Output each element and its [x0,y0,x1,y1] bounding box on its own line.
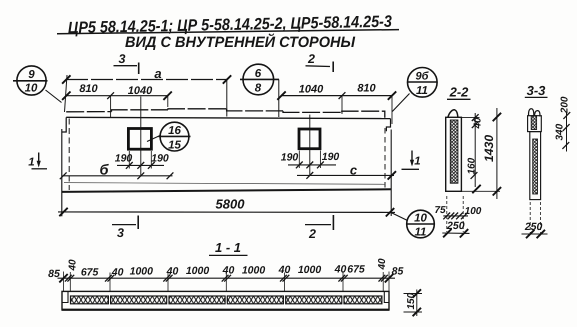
svg-text:2-2: 2-2 [449,85,470,100]
section 2-2 core hatch [450,120,458,183]
svg-text:250: 250 [524,221,543,233]
dim line a (top) [66,79,227,81]
svg-text:1000: 1000 [130,266,154,278]
svg-text:9: 9 [28,69,35,81]
section 1-1 hatch strip 6 [344,296,382,304]
svg-text:3: 3 [119,52,126,66]
svg-text:40: 40 [473,117,484,130]
svg-text:11: 11 [416,85,428,97]
section 1-1 right end step [384,291,389,302]
svg-text:100: 100 [465,206,482,217]
section 1-1 hatch strip 2 [111,296,167,304]
svg-text:160: 160 [467,157,478,174]
axis 3 vertical [140,97,142,177]
section 3-3 lower column [530,132,541,200]
section 1-1 extension verticals [64,272,390,292]
marker circle 10/11 [391,210,435,238]
section 3-3 right dim [566,112,568,152]
svg-text:б: б [100,163,110,179]
svg-text:675: 675 [81,267,99,279]
svg-text:810: 810 [79,83,98,95]
section 1-1 dim line [58,277,396,279]
svg-text:1: 1 [414,156,420,168]
svg-text:200: 200 [559,96,570,114]
marker circle 9/10 [13,66,62,103]
svg-text:340: 340 [554,123,565,140]
panel right inner dashed [384,128,386,188]
dim 1040 / 810 right [281,95,393,97]
marker circle 6/8 [240,64,279,117]
dim c line [297,174,394,176]
svg-text:40: 40 [278,264,291,276]
svg-text:75: 75 [434,205,446,216]
svg-text:11: 11 [415,227,427,239]
panel ledge top edge [66,109,385,118]
marker circle 16/15 [147,122,191,151]
section 3-3 bottom dim 250 [529,202,531,235]
panel top edge [66,117,390,118]
svg-text:6: 6 [255,68,262,80]
svg-text:810: 810 [357,83,376,95]
svg-text:190: 190 [115,152,133,164]
section 2-2 lifting hook [448,110,458,117]
svg-text:190: 190 [322,151,340,163]
svg-text:10: 10 [414,213,427,225]
svg-text:1: 1 [28,157,34,169]
svg-text:40: 40 [68,259,79,272]
opening square right [299,129,320,149]
section 1-1 hatch strip 4 [227,296,283,304]
panel left inner dashed [68,119,70,191]
svg-text:40: 40 [334,264,347,276]
panel bottom inner line [64,183,385,185]
dim 190/190 left [117,164,164,166]
svg-text:190: 190 [151,152,169,164]
marker circle 9b/11 [392,68,437,112]
svg-text:ВИД С ВНУТРЕННЕЙ СТОРОНЫ: ВИД С ВНУТРЕННЕЙ СТОРОНЫ [125,33,356,51]
section 3-3 upper block [528,116,542,132]
panel right edge [386,119,390,132]
svg-text:a: a [154,66,161,81]
svg-text:250: 250 [446,220,465,232]
svg-text:1 - 1: 1 - 1 [215,240,241,255]
dim b line [63,175,173,177]
svg-text:5800: 5800 [216,197,246,212]
svg-text:8: 8 [255,83,262,95]
svg-text:3: 3 [117,226,124,240]
svg-text:1040: 1040 [299,84,324,96]
section 1-1 right dim 150 [416,290,418,317]
svg-text:2: 2 [307,52,315,66]
svg-text:c: c [350,163,358,178]
svg-text:150: 150 [406,292,417,309]
section 1-1 hatch strip 3 [169,296,225,304]
section 1-1 hatch strip 5 [286,296,342,304]
dim 810 / 1040 left [66,95,168,97]
svg-text:1000: 1000 [242,265,266,277]
svg-text:10: 10 [25,83,38,95]
section 3-3 lower hatch [533,139,538,194]
svg-text:190: 190 [281,152,299,164]
svg-text:2: 2 [308,227,316,241]
section 1-1 bottom thick edge [62,309,389,311]
svg-text:85: 85 [392,266,404,278]
section 1-1 hatch strip 1 [71,296,109,304]
svg-text:675: 675 [347,264,365,276]
svg-text:1040: 1040 [128,85,153,97]
section 3-3 hooks [529,109,534,116]
extension line left top [65,75,68,112]
dim 5800 [58,211,395,214]
dim 190/190 right [288,164,336,166]
extension line a right [226,80,228,117]
svg-text:1000: 1000 [298,264,322,276]
svg-text:1000: 1000 [186,265,210,277]
svg-text:15: 15 [168,140,181,152]
opening square left [128,129,151,150]
svg-text:3-3: 3-3 [527,83,547,98]
section 1-1 outline [62,291,389,310]
axis 2 vertical [309,115,311,176]
title underline [57,30,399,34]
svg-text:40: 40 [377,258,388,271]
section 2-2 body [446,117,462,191]
section 2-2 inner dim [474,113,476,187]
svg-text:9б: 9б [416,71,430,83]
section 2-2 bottom dim 250 [442,232,469,234]
section 2-2 extension lines [461,116,479,118]
section 1-1 left end step [62,291,68,302]
panel left edge [62,117,66,132]
section 2-2 bottom dims 75/100 [446,196,448,232]
svg-text:1430: 1430 [482,135,496,162]
section 2-2 outer dim 1430 [496,108,498,199]
panel bottom edge [62,189,391,192]
svg-text:16: 16 [168,125,181,137]
